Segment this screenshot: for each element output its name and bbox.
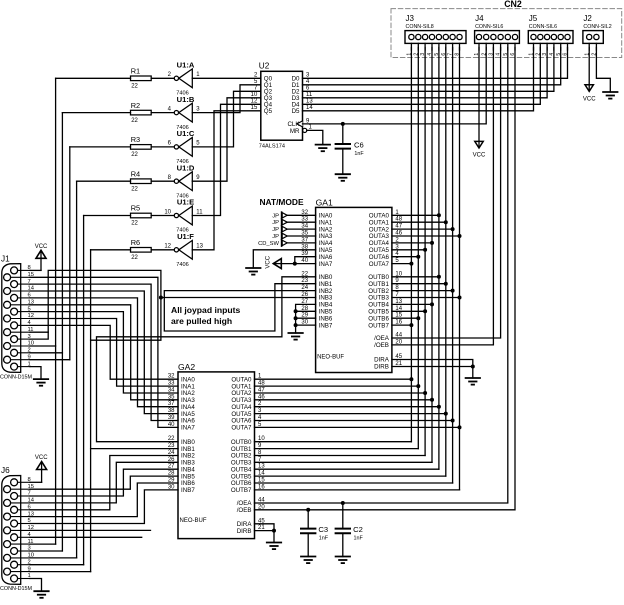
svg-text:JP: JP — [272, 234, 279, 240]
svg-text:10: 10 — [28, 553, 34, 559]
svg-text:12: 12 — [251, 99, 258, 105]
svg-text:OUTA7: OUTA7 — [231, 425, 252, 432]
jumper CD_SW to GA1 INA4 — [281, 240, 283, 246]
resistor R5 — [131, 213, 152, 218]
inverter U1:C — [174, 145, 178, 149]
svg-text:GA1: GA1 — [316, 197, 333, 207]
wires GA1 DIRA/DIRB to ground — [392, 360, 473, 379]
svg-text:22: 22 — [131, 118, 138, 124]
wire R4 vertical to J6 pin 10 — [76, 181, 78, 558]
inverter U1:A — [174, 76, 178, 80]
svg-text:23: 23 — [168, 443, 175, 449]
svg-text:/OEB: /OEB — [237, 507, 252, 514]
wire D2 to J5 pin 4 — [303, 48, 554, 92]
svg-text:CONN-SIL6: CONN-SIL6 — [529, 24, 557, 30]
wire GA2 OUTB6 to bus — [255, 482, 453, 484]
svg-text:VCC: VCC — [35, 455, 48, 461]
wire J1 pin 5 to GA2 INA2 — [30, 312, 178, 393]
svg-text:CONN-SIL6: CONN-SIL6 — [475, 24, 503, 30]
svg-text:32: 32 — [168, 374, 175, 380]
svg-text:24: 24 — [301, 285, 308, 291]
bus column J3 pin 3 — [424, 48, 426, 456]
svg-text:VCC: VCC — [473, 153, 486, 159]
svg-text:J6: J6 — [1, 466, 10, 475]
wire J6 pin 13 to GA2 INB6 — [30, 483, 178, 517]
svg-text:30: 30 — [168, 484, 175, 490]
bus column J3 pin 2 — [417, 48, 419, 449]
wire D5 to J5 pin 1 — [303, 48, 534, 111]
svg-text:28: 28 — [168, 471, 175, 477]
svg-text:R2: R2 — [131, 101, 140, 110]
wire J6 pin 12 — [30, 529, 151, 531]
ground below C3 — [301, 556, 315, 558]
svg-text:INA7: INA7 — [181, 425, 195, 432]
svg-text:13: 13 — [196, 244, 203, 250]
power VCC at J2 pin 1 — [585, 85, 593, 92]
wire D1 to J5 pin 5 — [303, 48, 561, 85]
svg-text:24: 24 — [168, 450, 175, 456]
svg-text:C3: C3 — [318, 525, 328, 534]
wire D3 to J5 pin 3 — [303, 48, 548, 98]
bus column J3 pin 5 — [438, 48, 440, 470]
svg-text:22: 22 — [131, 152, 138, 158]
svg-text:R3: R3 — [131, 135, 140, 144]
wire CLK to J4 pin 2 — [303, 48, 487, 124]
svg-text:CONN-SIL8: CONN-SIL8 — [406, 24, 434, 30]
jumper JP to GA1 INA3 — [281, 233, 283, 239]
wire D4 to J5 pin 2 — [303, 48, 541, 105]
wires GA1 INB4-INB7 to ground — [296, 304, 316, 333]
wire J1 pin 15 to GA2 INA7 — [30, 277, 178, 427]
svg-text:OUTB7: OUTB7 — [368, 322, 389, 329]
wire GA2 OUTB0 to bus — [255, 441, 412, 443]
svg-text:26: 26 — [168, 457, 175, 463]
svg-text:are pulled high: are pulled high — [171, 316, 232, 326]
svg-text:NEO-BUF: NEO-BUF — [317, 354, 344, 360]
wire GA2 OUTA6 to bus — [255, 420, 453, 422]
svg-text:U1:C: U1:C — [177, 129, 195, 138]
svg-text:7406: 7406 — [176, 262, 188, 268]
wire J1 pin 10 — [30, 345, 56, 347]
svg-text:J4: J4 — [475, 14, 484, 23]
wire U1:F output to U2 Q5 — [192, 111, 260, 250]
wire J6 pin 9 — [30, 571, 91, 573]
wire J6 pin 10 — [30, 557, 77, 559]
svg-text:JP: JP — [272, 227, 279, 233]
svg-text:VCC: VCC — [265, 255, 271, 268]
power VCC at J6 pin 8 — [30, 481, 42, 483]
wire GA2 /OEA to J4 pin 5 — [255, 48, 508, 504]
wire R5 lead — [84, 215, 131, 217]
wire J1 pin 13 to GA2 INA3 — [30, 305, 178, 400]
ground at GA1 INB4-7 — [288, 332, 302, 334]
wire U1:B output to U2 Q1 — [192, 85, 260, 113]
wire GA1 INA6 — [295, 257, 316, 264]
svg-text:CONN-SIL2: CONN-SIL2 — [583, 24, 611, 30]
wire GA1 /OEA to J4 pin 4 — [392, 48, 501, 339]
wire GA2 OUTB4 to bus — [255, 468, 439, 470]
resistor R4 — [131, 179, 152, 184]
svg-text:40: 40 — [168, 422, 175, 428]
wire J6 pin 7 to GA2 INB4 — [30, 469, 178, 496]
svg-text:CN2: CN2 — [504, 0, 522, 9]
wire R2 vertical to J6 pin 3 — [61, 113, 63, 551]
wire GA1 INB0 to GA2 INB0 — [97, 277, 316, 442]
wire GA1 OUTB7 to bus — [392, 324, 412, 326]
svg-text:U1:E: U1:E — [177, 198, 194, 207]
svg-text:11: 11 — [28, 539, 34, 545]
svg-text:9: 9 — [28, 566, 31, 572]
connector group CN2 — [391, 9, 622, 58]
wire GA2 /OEB to J4 pin 6 — [255, 48, 516, 510]
wire GA2 OUTB3 to bus — [255, 461, 433, 463]
wire R3 vertical to J1 pin 9 — [69, 147, 71, 360]
node /OEB C3 junction — [306, 508, 310, 512]
svg-text:33: 33 — [168, 381, 175, 387]
svg-text:35: 35 — [168, 394, 175, 400]
wire GA1 OUTA5 to bus — [392, 249, 425, 251]
svg-text:C6: C6 — [354, 141, 364, 150]
wire GA1 OUTA0 to bus — [392, 214, 439, 216]
svg-text:74ALS174: 74ALS174 — [259, 144, 285, 150]
ground at J1 pin 1 — [30, 367, 41, 380]
ground below C2 — [336, 556, 350, 558]
svg-text:DIRB: DIRB — [237, 528, 252, 535]
wire GA1 OUTA4 to bus — [392, 242, 432, 244]
svg-text:INB7: INB7 — [181, 487, 195, 494]
capacitor C3 — [307, 510, 309, 529]
wire J1 pin 2 — [30, 352, 62, 354]
svg-text:U1:F: U1:F — [177, 232, 194, 241]
wire GA2 OUTB1 to bus — [255, 448, 419, 450]
wire J1 pin 14 to GA2 INA5 — [30, 291, 178, 414]
svg-text:C2: C2 — [353, 525, 363, 534]
resistor R1 — [131, 76, 152, 81]
wire GA2 OUTA2 to bus — [255, 392, 426, 394]
wire J6 pin 5 to GA2 INB7 — [30, 490, 178, 524]
svg-text:R4: R4 — [131, 169, 140, 178]
wire GA1 OUTA3 to bus — [392, 235, 460, 237]
svg-text:U1:D: U1:D — [177, 163, 195, 172]
wire D0 to J5 pin 6 — [303, 48, 568, 79]
wire R1 vertical to J6 pin 11 — [55, 78, 57, 544]
wire R3 lead — [70, 146, 131, 148]
svg-text:JP: JP — [272, 213, 279, 219]
svg-text:22: 22 — [131, 186, 138, 192]
svg-text:26: 26 — [301, 292, 308, 298]
capacitor C2 — [342, 503, 344, 529]
svg-text:15: 15 — [251, 105, 258, 111]
bus column J3 pin 8 — [459, 48, 461, 490]
wire GA1 OUTB1 to bus — [392, 283, 446, 285]
wire branch GA1 INB3 — [161, 297, 316, 299]
wire GA2 OUTB2 to bus — [255, 455, 426, 457]
svg-text:11: 11 — [196, 209, 203, 215]
wire GA2 INB1 row — [91, 448, 178, 450]
svg-text:OUTB7: OUTB7 — [231, 487, 252, 494]
wire GA1 OUTB4 to bus — [392, 303, 432, 305]
wire GA1 OUTA1 to bus — [392, 221, 446, 223]
svg-text:VCC: VCC — [583, 96, 596, 102]
svg-text:22: 22 — [131, 255, 138, 261]
wire GA1 /OEB to J4 pin 3 — [392, 48, 494, 345]
wire J6 pin 15 to GA2 INB5 — [30, 476, 178, 489]
wire GA1 OUTB5 to bus — [392, 310, 425, 312]
svg-text:INA7: INA7 — [319, 261, 333, 268]
bus column J3 pin 4 — [431, 48, 433, 463]
wire U1:E output to U2 Q4 — [192, 104, 260, 215]
wire GA1 OUTB0 to bus — [392, 276, 439, 278]
svg-text:J5: J5 — [529, 14, 538, 23]
wire J1 pin 6 to GA2 INA4 — [30, 298, 178, 407]
resistor R2 — [131, 110, 152, 115]
power VCC at J4 pin 1 — [475, 141, 483, 148]
wire R5 vertical to J6 pin 2 — [83, 216, 85, 565]
jumper JP to GA1 INA1 — [281, 219, 283, 225]
svg-text:22: 22 — [301, 271, 308, 277]
wire GA1 OUTA6 to bus — [392, 256, 418, 258]
svg-text:CONN-D15M: CONN-D15M — [0, 374, 33, 380]
svg-text:39: 39 — [168, 415, 175, 421]
svg-text:1nF: 1nF — [319, 535, 329, 541]
inverter U1:B — [174, 110, 178, 114]
svg-text:DIRA: DIRA — [374, 357, 390, 364]
inverter U1:E — [174, 213, 178, 217]
svg-text:10: 10 — [251, 92, 258, 98]
svg-text:R5: R5 — [131, 204, 140, 213]
svg-text:Q5: Q5 — [264, 108, 273, 115]
svg-text:2: 2 — [28, 559, 31, 565]
wire R4 lead — [77, 180, 131, 182]
svg-text:VCC: VCC — [35, 244, 48, 250]
wire GA1 INB1 INB2 tie loop — [164, 284, 315, 331]
power VCC at GA1 INA7 — [281, 263, 316, 265]
node INA6/INA7 junction — [293, 262, 297, 266]
ground at GA1 DIRA/DIRB — [466, 377, 480, 379]
svg-text:22: 22 — [131, 84, 138, 90]
svg-text:NAT/MODE: NAT/MODE — [260, 197, 304, 207]
svg-text:23: 23 — [301, 278, 308, 284]
wire GA2 OUTA0 to bus — [255, 378, 412, 380]
svg-text:J1: J1 — [1, 255, 10, 264]
svg-text:J3: J3 — [406, 14, 415, 23]
capacitor C6 — [342, 124, 344, 144]
svg-text:GA2: GA2 — [178, 362, 195, 372]
bus column J3 pin 1 — [410, 48, 412, 442]
ground below C6 — [336, 173, 350, 175]
wire J6 pin 4 — [30, 536, 142, 538]
node CLK/C6 junction — [341, 122, 345, 126]
svg-text:All joypad inputs: All joypad inputs — [171, 305, 240, 315]
wire GA2 OUTA4 to bus — [255, 406, 439, 408]
svg-text:DIRB: DIRB — [374, 364, 389, 371]
svg-text:D5: D5 — [292, 108, 300, 115]
wire GA2 OUTA5 to bus — [255, 413, 446, 415]
wire R6 vertical to J6 pin 9 — [90, 250, 92, 572]
wire J1 pin 12 to GA2 INA1 — [30, 319, 178, 387]
wire J6 pin 14 to GA2 INB3 — [30, 462, 178, 503]
node GA1 INB3 junction — [159, 296, 163, 300]
wire GA1 OUTB6 to bus — [392, 317, 418, 319]
wire J1 pin 3 to GA1 INB3 — [30, 270, 161, 340]
wire J6 pin 11 — [30, 543, 56, 545]
wire U1:D output to U2 Q3 — [192, 98, 260, 181]
wire J6 pin 6 to GA2 INB2 — [30, 456, 178, 510]
wire R6 lead — [91, 249, 131, 251]
power VCC at J1 pin 8 — [30, 269, 41, 271]
svg-text:CD_SW: CD_SW — [258, 241, 279, 247]
svg-text:3: 3 — [28, 546, 31, 552]
resistor R6 — [131, 248, 152, 253]
svg-text:J2: J2 — [583, 14, 592, 23]
jumper JP to GA1 INA0 — [281, 212, 283, 218]
svg-text:/OEB: /OEB — [374, 342, 389, 349]
wires GA2 DIRA/DIRB to ground — [255, 524, 275, 543]
pin MR bubble — [303, 128, 307, 132]
svg-text:10: 10 — [164, 209, 171, 215]
wire GA2 OUTB5 to bus — [255, 475, 446, 477]
svg-text:U1:B: U1:B — [177, 95, 195, 104]
wire U1:A output to U2 Q0 — [192, 77, 260, 79]
wire J1 pin 11 — [30, 331, 48, 333]
wire J6 pin 2 — [30, 564, 84, 566]
svg-text:CONN-D15M: CONN-D15M — [0, 586, 33, 592]
inverter U1:F — [174, 248, 178, 252]
svg-text:R6: R6 — [131, 238, 140, 247]
wire J6 pin 3 — [30, 550, 62, 552]
wire GA2 OUTB7 to bus — [255, 489, 460, 491]
ground at J2 pin 2 — [596, 48, 610, 93]
svg-text:NEO-BUF: NEO-BUF — [180, 518, 207, 524]
svg-text:INB7: INB7 — [319, 322, 333, 329]
svg-text:38: 38 — [168, 408, 175, 414]
svg-text:34: 34 — [168, 388, 175, 394]
svg-text:37: 37 — [168, 401, 175, 407]
resistor R3 — [131, 145, 152, 150]
wire GA1 OUTA2 to bus — [392, 228, 453, 230]
ground at GA1 INA5 — [253, 250, 315, 268]
wire GA1 OUTB3 to bus — [392, 297, 460, 299]
svg-text:R1: R1 — [131, 67, 140, 76]
wire J1 pin 4 to GA2 INA0 — [30, 325, 178, 379]
wire J1 pin 7 to GA2 INA6 — [30, 284, 178, 420]
svg-text:1nF: 1nF — [354, 151, 364, 157]
wire GA2 OUTA7 to bus — [255, 426, 460, 428]
ground at J6 pin 1 — [30, 579, 42, 592]
wire R2 lead — [62, 112, 130, 114]
svg-text:1nF: 1nF — [354, 535, 364, 541]
wire GA1 OUTB2 to bus — [392, 290, 453, 292]
jumper JP to GA1 INA2 — [281, 226, 283, 232]
wire GA2 OUTA3 to bus — [255, 399, 433, 401]
wire MR to ground — [307, 130, 323, 144]
wire GA2 OUTA1 to bus — [255, 385, 419, 387]
node /OEA C2 junction — [341, 501, 345, 505]
ground at GA2 DIRA/DIRB — [267, 542, 281, 544]
svg-text:22: 22 — [168, 436, 175, 442]
wire R1 lead — [56, 77, 131, 79]
bus column J3 pin 6 — [445, 48, 447, 477]
svg-text:29: 29 — [168, 478, 175, 484]
inverter U1:D — [174, 179, 178, 183]
svg-text:MR: MR — [290, 128, 300, 135]
wire U1:C output to U2 Q2 — [192, 91, 260, 147]
wire GA1 OUTA7 to bus — [392, 263, 412, 265]
bus column J3 pin 7 — [452, 48, 454, 484]
svg-text:JP: JP — [272, 220, 279, 226]
svg-text:27: 27 — [168, 464, 175, 470]
wire J1 pin 9 — [30, 359, 70, 361]
svg-text:22: 22 — [131, 221, 138, 227]
svg-text:OUTA7: OUTA7 — [369, 261, 390, 268]
svg-text:12: 12 — [164, 244, 171, 250]
svg-text:U2: U2 — [259, 61, 270, 70]
svg-text:U1:A: U1:A — [177, 61, 195, 70]
